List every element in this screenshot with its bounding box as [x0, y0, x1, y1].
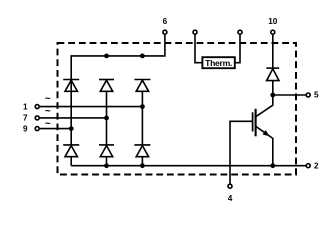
- node dot bottom bus leg3: [140, 163, 145, 168]
- wire pin9 to leg1: [40, 128, 71, 130]
- wire thermistor right: [235, 35, 240, 63]
- wire pin10 to diode D7: [272, 35, 274, 68]
- pin 2 label: [314, 161, 319, 170]
- transistor Q1 IGBT: [253, 95, 273, 166]
- svg-text:6: 6: [163, 17, 168, 26]
- node dot emitter on bottom bus: [270, 163, 275, 168]
- pin 7 label: [23, 114, 28, 123]
- wire thermistor left: [195, 35, 202, 63]
- diode D1 top leg1: [63, 80, 79, 92]
- wire leg2 middle: [106, 91, 108, 145]
- wire pin7 to leg2: [40, 117, 107, 119]
- node dot line9 leg1: [69, 126, 74, 131]
- node dot line1 leg3: [140, 104, 145, 109]
- wire leg3 middle: [141, 91, 143, 145]
- svg-text:~: ~: [45, 94, 51, 105]
- svg-text:4: 4: [228, 194, 233, 203]
- svg-text:9: 9: [23, 124, 28, 133]
- node dot line7 leg2: [104, 116, 109, 121]
- diode D3 top leg3: [134, 80, 150, 92]
- pin 10 terminal: [271, 30, 275, 34]
- AC tilde pin 1: [45, 94, 51, 105]
- pin 4 label: [228, 194, 233, 203]
- wire gate to pin 4: [230, 121, 253, 183]
- AC tilde pin 7: [45, 106, 51, 117]
- svg-text:5: 5: [314, 91, 319, 100]
- pin 7 terminal: [35, 116, 39, 120]
- bottom bus wire (minus rail): [71, 165, 306, 167]
- diode D5 bottom leg2: [99, 145, 114, 166]
- node dot top bus leg3: [140, 54, 145, 59]
- wire pin1 to leg3: [40, 106, 142, 108]
- pin 4 terminal: [228, 184, 232, 188]
- diode D2 top leg2: [99, 80, 114, 92]
- svg-text:~: ~: [45, 106, 51, 117]
- pin 5 terminal: [306, 93, 310, 97]
- thermistor terminal right: [238, 30, 242, 34]
- AC tilde pin 9: [45, 118, 51, 129]
- diode D4 bottom leg1: [63, 145, 79, 166]
- dashed module outline: [58, 43, 297, 175]
- diode D7 freewheel: [266, 68, 279, 95]
- node dot bottom bus leg2: [104, 163, 109, 168]
- diode D6 bottom leg3: [134, 145, 150, 166]
- svg-text:Therm.: Therm.: [205, 58, 232, 68]
- wire leg1 middle: [70, 91, 72, 145]
- svg-text:~: ~: [45, 118, 51, 129]
- node dot top bus leg2: [104, 54, 109, 59]
- svg-text:1: 1: [23, 102, 28, 111]
- pin 6 label: [163, 17, 168, 26]
- wire node to pin 5: [273, 94, 306, 96]
- pin 10 label: [268, 17, 278, 26]
- svg-text:7: 7: [23, 114, 28, 123]
- thermistor Therm box: [202, 57, 234, 68]
- pin 9 terminal: [35, 127, 39, 131]
- pin 6 terminal: [163, 30, 167, 34]
- pin 5 label: [314, 91, 319, 100]
- thermistor terminal left: [193, 30, 197, 34]
- svg-text:2: 2: [314, 161, 319, 170]
- pin 9 label: [23, 124, 28, 133]
- pin 1 terminal: [35, 105, 39, 109]
- svg-text:10: 10: [268, 17, 278, 26]
- pin 2 terminal: [306, 164, 310, 168]
- pin 1 label: [23, 102, 28, 111]
- node dot collector / pin5: [270, 93, 275, 98]
- top bus wire (plus rail): [71, 35, 165, 92]
